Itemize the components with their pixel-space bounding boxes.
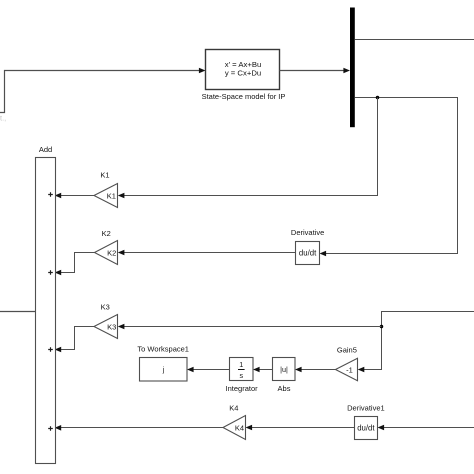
- wire K4 to Add input 4: [55, 425, 223, 431]
- wire Abs to Integrator: [253, 367, 273, 373]
- svg-text:K2: K2: [102, 229, 111, 238]
- svg-text:K1: K1: [100, 170, 109, 179]
- wire junction J1 down to K1: [118, 98, 378, 199]
- wire State-Space output to demux: [280, 68, 351, 74]
- svg-text:-1: -1: [346, 365, 353, 374]
- gain K4: [223, 404, 246, 440]
- wire right edge to junction J2 down to Gain5: [358, 312, 474, 373]
- svg-text:Derivative1: Derivative1: [347, 404, 385, 413]
- svg-text:|u|: |u|: [280, 365, 288, 374]
- wire Derivative to K2: [118, 250, 296, 256]
- svg-text:To Workspace1: To Workspace1: [137, 345, 189, 354]
- junction J1: [376, 96, 380, 100]
- block Derivative1: [347, 404, 385, 440]
- wire Derivative1 to K4: [246, 425, 355, 431]
- wire Gain5 to Abs: [295, 367, 336, 373]
- svg-text:Add: Add: [39, 145, 52, 154]
- svg-text:Gain5: Gain5: [337, 346, 357, 355]
- svg-text:1: 1: [239, 360, 243, 369]
- svg-text:K4: K4: [229, 404, 238, 413]
- block Abs: [273, 358, 296, 394]
- faint cut-off label at left edge: [0, 114, 6, 123]
- gain Gain5: [336, 346, 358, 381]
- svg-text:K1: K1: [107, 191, 116, 200]
- svg-text:State-Space model for IP: State-Space model for IP: [202, 92, 286, 101]
- wire right edge to Derivative1: [378, 425, 474, 431]
- svg-text:Derivative: Derivative: [291, 228, 324, 237]
- gain K1: [94, 170, 118, 207]
- wire Integrator to To Workspace1: [187, 367, 230, 373]
- wire demux output 2 to Derivative (via right loop): [320, 98, 458, 257]
- junction J2: [380, 325, 384, 329]
- wire from left edge up to State-Space input: [0, 68, 206, 113]
- svg-text:j: j: [162, 365, 165, 374]
- gain K3: [94, 303, 118, 339]
- svg-text:s: s: [240, 371, 244, 380]
- demux bar: [350, 8, 355, 128]
- wire demux output 1 to right edge: [355, 39, 474, 41]
- wire K2 to Add input 2: [55, 253, 95, 276]
- gain K2: [95, 229, 118, 265]
- wire junction J2 to K3: [118, 324, 382, 330]
- svg-text:Integrator: Integrator: [226, 384, 259, 393]
- svg-text:t.,: t.,: [0, 114, 6, 123]
- svg-text:y = Cx+Du: y = Cx+Du: [225, 68, 261, 77]
- wire Add output to left edge: [0, 311, 36, 313]
- wire K3 to Add input 3: [55, 327, 94, 353]
- block Integrator: [226, 358, 259, 394]
- block To Workspace1: [137, 345, 189, 381]
- svg-text:K3: K3: [107, 322, 116, 331]
- block Add: [36, 145, 56, 464]
- svg-text:du/dt: du/dt: [299, 249, 317, 258]
- svg-text:K4: K4: [235, 423, 244, 432]
- svg-text:du/dt: du/dt: [357, 424, 375, 433]
- svg-text:K2: K2: [107, 248, 116, 257]
- block: State-Space model for IP: [202, 50, 286, 102]
- svg-text:Abs: Abs: [278, 384, 291, 393]
- block Derivative: [291, 228, 324, 264]
- svg-text:K3: K3: [101, 303, 110, 312]
- wire K1 to Add input 1: [55, 193, 94, 199]
